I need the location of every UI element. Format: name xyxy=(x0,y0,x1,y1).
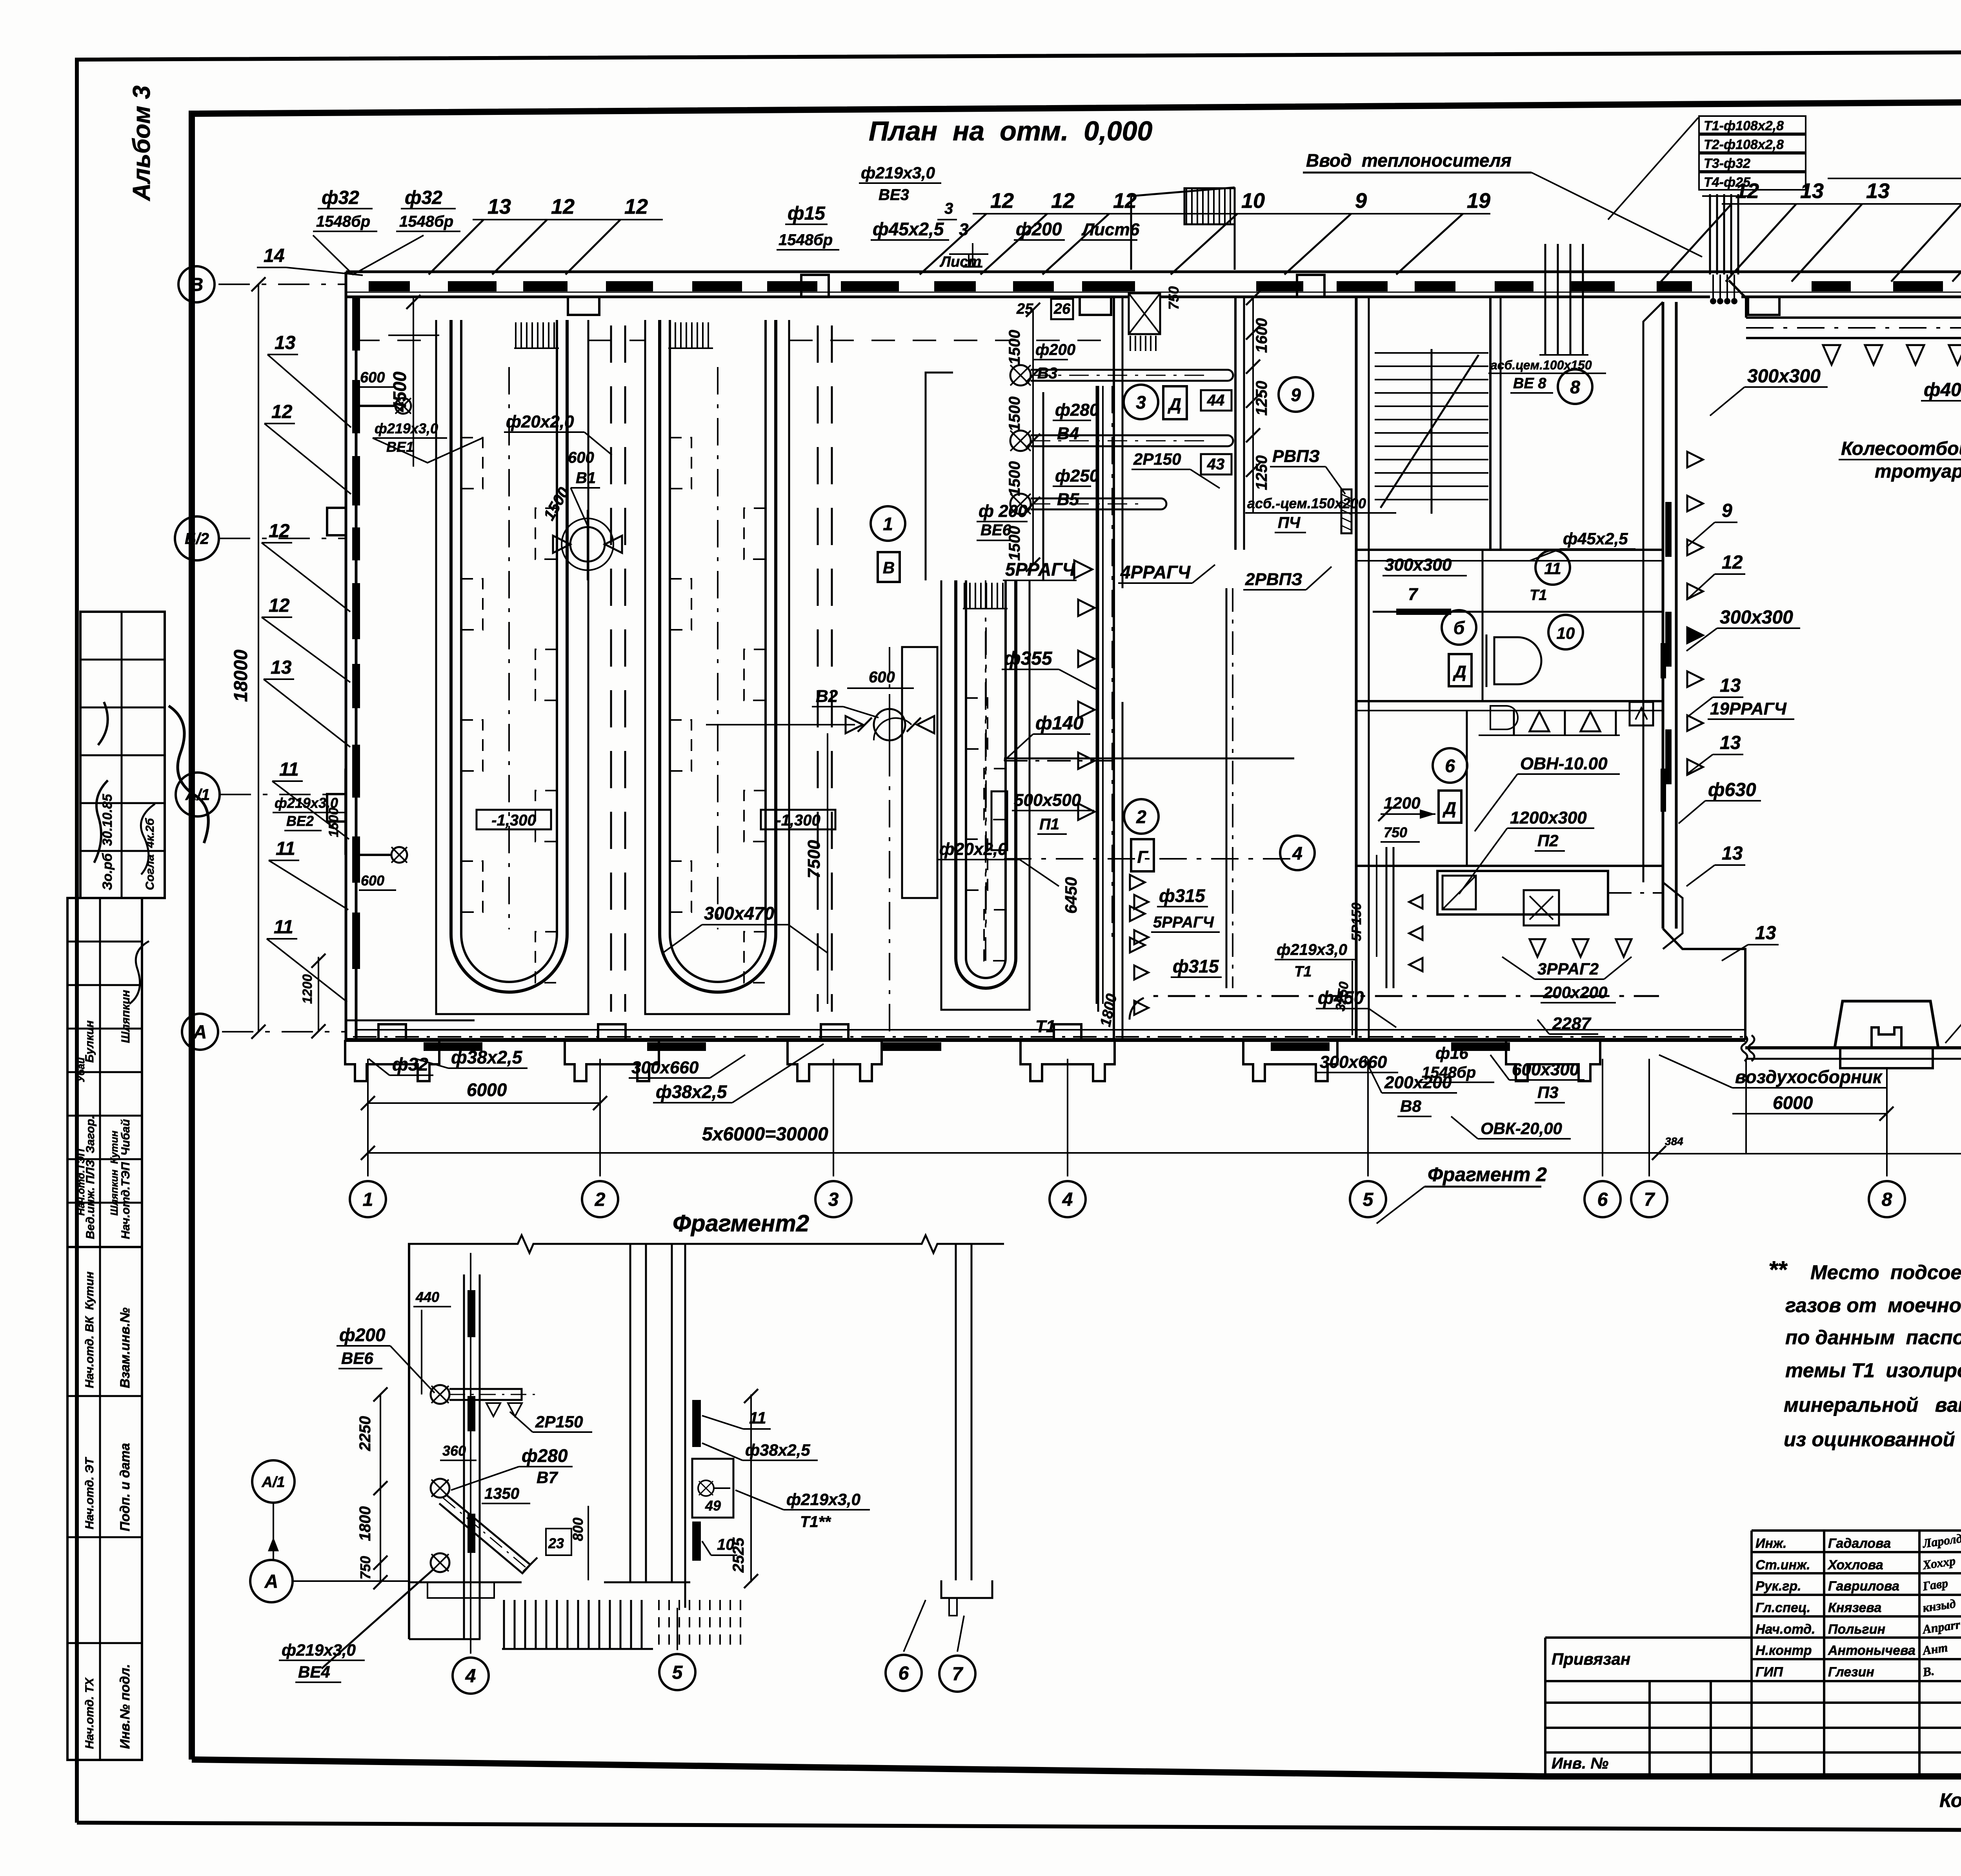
svg-text:ф140: ф140 xyxy=(1035,713,1084,734)
svg-text:Д: Д xyxy=(1442,799,1456,818)
svg-text:Ввод теплоносителя: Ввод теплоносителя xyxy=(1306,150,1512,171)
svg-text:5РРАГЧ: 5РРАГЧ xyxy=(1153,914,1214,931)
svg-text:В2: В2 xyxy=(816,687,838,706)
svg-text:6450: 6450 xyxy=(1062,877,1080,914)
T1 pipe room 11 xyxy=(1373,555,1663,615)
svg-text:В4: В4 xyxy=(1057,424,1079,443)
svg-text:Шляпкин Кутин: Шляпкин Кутин xyxy=(108,1131,120,1216)
triangle markers on wall 2840 xyxy=(1078,600,1145,953)
svg-text:10: 10 xyxy=(1241,189,1265,213)
svg-text:1500: 1500 xyxy=(1006,461,1023,496)
svg-text:440: 440 xyxy=(415,1289,439,1305)
svg-text:1200х300: 1200х300 xyxy=(1510,808,1587,827)
labels 200x200 V8 600x300 P3 OVK xyxy=(1365,1055,1584,1139)
left wall branch BE1 xyxy=(355,369,482,463)
svg-text:43: 43 xyxy=(1207,456,1225,473)
svg-text:ПЧ: ПЧ xyxy=(1278,514,1301,531)
svg-text:Г: Г xyxy=(1137,847,1148,867)
flags f32 1548br top left xyxy=(257,187,460,275)
svg-text:ВЕ3: ВЕ3 xyxy=(879,186,909,204)
svg-text:600: 600 xyxy=(568,449,594,466)
svg-text:600х300: 600х300 xyxy=(1512,1060,1579,1079)
svg-text:200х200: 200х200 xyxy=(1384,1073,1452,1092)
svg-text:асб.-цем.150х200: асб.-цем.150х200 xyxy=(1247,495,1366,511)
label f20x2.0 in hall xyxy=(504,412,1059,886)
fragment 2 axis bubbles 4 5 6 7 xyxy=(453,1253,975,1694)
svg-text:19: 19 xyxy=(1467,189,1490,213)
svg-text:360: 360 xyxy=(442,1443,466,1459)
wall x3150 rooms 3-9 xyxy=(1235,297,1244,550)
svg-text:2Р150: 2Р150 xyxy=(1133,450,1181,468)
svg-text:750: 750 xyxy=(1166,286,1182,310)
svg-text:12: 12 xyxy=(990,189,1014,213)
main title Plan at elev 0.000 xyxy=(869,116,1153,146)
svg-text:1800: 1800 xyxy=(357,1506,374,1541)
bottom dim line 5x6000=30000 xyxy=(361,1124,1666,1160)
right section slope triangles row xyxy=(1823,345,1961,365)
svg-text:Взам.инв.№: Взам.инв.№ xyxy=(118,1307,133,1388)
svg-text:13: 13 xyxy=(1866,179,1890,203)
svg-text:300х300: 300х300 xyxy=(1720,607,1793,628)
svg-text:2: 2 xyxy=(1136,807,1146,827)
svg-text:Согла 4к.2б: Согла 4к.2б xyxy=(144,818,156,890)
svg-text:Зо.рб 30.10.85: Зо.рб 30.10.85 xyxy=(100,794,115,890)
svg-text:2РВПЗ: 2РВПЗ xyxy=(1245,570,1302,589)
svg-text:ф40: ф40 xyxy=(1924,380,1961,400)
svg-text:Н.контр: Н.контр xyxy=(1755,1643,1812,1658)
svg-text:ф38х2,5: ф38х2,5 xyxy=(656,1082,728,1102)
svg-text:ВЕ6: ВЕ6 xyxy=(980,522,1011,539)
svg-text:Убай: Убай xyxy=(75,1057,87,1082)
corridor walls below stair xyxy=(1356,550,1663,867)
title block signature table xyxy=(1752,1531,1961,1776)
fragment 2 floor and trench xyxy=(409,1582,740,1649)
svg-text:Место подсоединения технолог: Место подсоединения технологического выб… xyxy=(1810,1261,1961,1283)
bottom wall footings xyxy=(345,1024,1600,1081)
svg-text:ф200: ф200 xyxy=(1016,219,1062,239)
hall platform edge dashed line xyxy=(356,340,1113,341)
svg-text:Д: Д xyxy=(1452,662,1466,682)
svg-text:ф219х3,0: ф219х3,0 xyxy=(282,1641,356,1659)
label OVN-10.00 xyxy=(1475,754,1620,831)
svg-text:ф219х3,0: ф219х3,0 xyxy=(786,1490,860,1509)
svg-text:1548бр: 1548бр xyxy=(779,231,833,249)
fragment 2 wall and columns xyxy=(409,1244,971,1639)
svg-text:Глезин: Глезин xyxy=(1828,1665,1874,1680)
svg-text:6000: 6000 xyxy=(1773,1093,1813,1113)
svg-text:ф250: ф250 xyxy=(1055,466,1099,485)
hall labels 5RRAGCh 4RRAGCh xyxy=(977,502,1332,590)
top band callout numbers left group xyxy=(429,195,663,274)
svg-text:Нач.отд. ВК Кутин: Нач.отд. ВК Кутин xyxy=(83,1272,96,1388)
svg-text:ф16: ф16 xyxy=(1435,1044,1469,1062)
svg-text:Нач.отд. ЭТ: Нач.отд. ЭТ xyxy=(83,1457,96,1529)
lane 3 roadway dashed centreline xyxy=(818,325,832,1012)
svg-text:7: 7 xyxy=(1408,585,1419,604)
label 1200 bottom left corner xyxy=(300,954,326,1038)
svg-text:В7: В7 xyxy=(537,1468,558,1487)
title block left extension privyazan xyxy=(1545,1638,1752,1776)
svg-text:**: ** xyxy=(1768,1256,1788,1283)
fragment 2 pipe BE4 xyxy=(279,1553,449,1682)
right section top sidewalk tract xyxy=(1729,280,1961,338)
svg-text:1: 1 xyxy=(363,1189,373,1210)
svg-text:2: 2 xyxy=(595,1189,606,1210)
heat inlet pipe risers xyxy=(1702,194,1749,304)
svg-text:13: 13 xyxy=(1800,179,1824,203)
label 300x300 pair and 19RRAGCh right side xyxy=(1679,366,1828,961)
svg-text:ф200: ф200 xyxy=(1035,341,1075,358)
svg-text:Б/2: Б/2 xyxy=(185,530,209,547)
svg-text:5РРАГЧ: 5РРАГЧ xyxy=(1005,559,1076,580)
left margin signature table upper xyxy=(80,612,208,898)
svg-text:-1,300: -1,300 xyxy=(776,812,820,829)
svg-text:7: 7 xyxy=(952,1664,964,1685)
svg-text:ф630: ф630 xyxy=(1708,780,1756,800)
drain funnel B2 xyxy=(706,669,934,1004)
svg-text:ф32: ф32 xyxy=(405,187,442,208)
svg-text:11: 11 xyxy=(1544,559,1561,578)
svg-text:ОВК-20,00: ОВК-20,00 xyxy=(1481,1119,1562,1138)
svg-text:ф20х2,0: ф20х2,0 xyxy=(506,412,574,431)
svg-text:1200: 1200 xyxy=(300,974,315,1004)
svg-text:Нач.отд.ТЭП: Нач.отд.ТЭП xyxy=(75,1149,87,1216)
riser pipes room 6 xyxy=(1349,847,1423,988)
bottom wall left part xyxy=(346,1020,1745,1040)
bottom dim line 36000 xyxy=(1659,1128,1961,1167)
svg-text:Т2-ф108х2,8: Т2-ф108х2,8 xyxy=(1704,137,1784,152)
svg-text:ОВН-10.00: ОВН-10.00 xyxy=(1520,754,1608,773)
left margin signature table middle xyxy=(67,898,149,1247)
axis A bubble left xyxy=(182,1014,345,1050)
svg-text:13: 13 xyxy=(1720,675,1741,696)
svg-text:б: б xyxy=(1453,618,1465,638)
notes asterisk paragraph xyxy=(1768,1256,1961,1451)
svg-text:Альбом 3: Альбом 3 xyxy=(128,85,155,202)
svg-text:воздухосборник: воздухосборник xyxy=(1735,1067,1883,1087)
svg-text:1548бр: 1548бр xyxy=(399,213,453,230)
svg-text:12: 12 xyxy=(269,521,290,542)
svg-text:2Р150: 2Р150 xyxy=(535,1412,583,1431)
svg-text:6: 6 xyxy=(899,1663,909,1684)
fragment 2 grid 7 column footing xyxy=(941,1580,992,1616)
fragment 2 pipe B7 diagonal xyxy=(431,1445,588,1580)
svg-text:800: 800 xyxy=(570,1518,586,1541)
toilet partitions xyxy=(1483,627,1666,812)
svg-text:ф280: ф280 xyxy=(522,1445,568,1466)
wheel stop blocks xyxy=(1835,1001,1961,1068)
svg-text:Привязан: Привязан xyxy=(1552,1650,1630,1668)
top band callout numbers center group xyxy=(920,189,1490,274)
svg-text:500х500: 500х500 xyxy=(1014,791,1081,810)
svg-text:В: В xyxy=(883,558,895,577)
svg-text:ф219х3,0: ф219х3,0 xyxy=(375,420,438,436)
fragment 2 pipe BE6 xyxy=(337,1325,592,1460)
entrance pit with cross xyxy=(1016,293,1160,351)
svg-text:4РРАГЧ: 4РРАГЧ xyxy=(1120,562,1191,582)
entrance porch top centre xyxy=(1131,187,1235,270)
album label xyxy=(128,85,155,202)
svg-text:13: 13 xyxy=(1722,843,1743,864)
svg-text:6: 6 xyxy=(1597,1189,1608,1210)
svg-text:13: 13 xyxy=(275,333,296,353)
svg-text:44: 44 xyxy=(1207,392,1225,409)
floor slope dim 4500 xyxy=(388,295,439,467)
svg-text:4: 4 xyxy=(1062,1189,1073,1210)
roadway axis dashed line lane 1-2 xyxy=(611,325,625,1012)
room 4 ducts xyxy=(1130,588,1659,1027)
svg-text:12: 12 xyxy=(1113,189,1137,213)
flags f15 f45 f200 list labels xyxy=(777,164,1182,310)
svg-text:Князева: Князева xyxy=(1828,1600,1881,1615)
svg-text:Шляпкин: Шляпкин xyxy=(119,990,132,1043)
svg-text:темы Т1 изолировать плитами: темы Т1 изолировать плитами теплоизоляци… xyxy=(1785,1359,1961,1382)
elbow duct bottom center xyxy=(1524,890,1559,925)
top wall heat pipe dark dashes xyxy=(369,281,1961,291)
vent shaft asb-cem room 9 xyxy=(1245,447,1396,533)
toilet fixtures room 10 xyxy=(1479,634,1653,735)
svg-text:Лист: Лист xyxy=(939,254,981,270)
svg-text:12: 12 xyxy=(1722,552,1743,573)
svg-text:3: 3 xyxy=(828,1189,839,1210)
svg-text:ф45х2,5: ф45х2,5 xyxy=(873,219,944,239)
svg-text:11: 11 xyxy=(276,838,295,859)
fragment 2 heading xyxy=(673,1210,809,1236)
right section stall marker triangles xyxy=(1687,452,1703,775)
svg-text:Гл.спец.: Гл.спец. xyxy=(1755,1600,1810,1615)
dim 6450 1800 washbay xyxy=(1062,877,1120,1028)
svg-text:600: 600 xyxy=(361,873,384,889)
kolesootboy trotuar label lower xyxy=(1945,936,1961,1102)
dim 1200 750 room6 xyxy=(1378,794,1435,842)
svg-text:3РРАГ2: 3РРАГ2 xyxy=(1537,960,1599,978)
svg-text:8: 8 xyxy=(1570,377,1580,397)
top wall of building xyxy=(346,272,1961,315)
svg-text:9: 9 xyxy=(1291,385,1301,405)
svg-text:300х660: 300х660 xyxy=(1320,1053,1387,1072)
vertical dim 18000 xyxy=(231,277,266,1039)
svg-text:4: 4 xyxy=(1292,843,1302,863)
copied by label xyxy=(1939,1789,1961,1811)
vozduhosbornik label xyxy=(1659,1035,1894,1153)
heating pipe T1 along bottom wall xyxy=(353,1017,1745,1051)
svg-text:Нач.отд. ТХ: Нач.отд. ТХ xyxy=(83,1677,96,1749)
svg-text:13: 13 xyxy=(488,195,511,218)
svg-text:ф15: ф15 xyxy=(788,203,826,224)
svg-text:12: 12 xyxy=(1051,189,1075,213)
svg-text:5: 5 xyxy=(1363,1189,1374,1210)
svg-text:2287: 2287 xyxy=(1552,1014,1592,1033)
axis leader kinks 6 7 xyxy=(1603,1098,1628,1176)
svg-text:5Р150: 5Р150 xyxy=(1349,903,1364,941)
top band callout numbers right group xyxy=(1661,179,1961,282)
inspection pit 1 xyxy=(436,320,588,1014)
svg-text:из оцинкованной стали с г: из оцинкованной стали с газоплотными сое… xyxy=(1784,1428,1961,1451)
svg-text:750: 750 xyxy=(1384,824,1407,840)
fragment 2 grid circles A1 A xyxy=(250,1460,408,1602)
svg-text:6000: 6000 xyxy=(467,1080,507,1100)
svg-text:300х300: 300х300 xyxy=(1384,555,1452,574)
staircase treads xyxy=(1375,349,1488,514)
svg-text:Нач.отд.: Нач.отд. xyxy=(1755,1622,1815,1637)
right section left wall xyxy=(1643,302,1745,1040)
svg-text:Инж.: Инж. xyxy=(1755,1536,1786,1551)
svg-text:Гадалова: Гадалова xyxy=(1828,1536,1891,1551)
axis bubbles bottom 1-10 xyxy=(350,1059,1961,1217)
svg-text:В.: В. xyxy=(1921,1663,1935,1679)
svg-text:Хохлова: Хохлова xyxy=(1827,1558,1883,1572)
svg-text:Колесоотбойный: Колесоотбойный xyxy=(1841,438,1961,459)
svg-text:7500: 7500 xyxy=(804,840,824,878)
stair block walls xyxy=(1356,297,1663,561)
labels 3RRAG2 200x200 bottom center xyxy=(1502,939,1632,1003)
svg-text:5х6000=30000: 5х6000=30000 xyxy=(702,1124,828,1145)
fragment 2 leader label on plan xyxy=(1377,1163,1547,1223)
svg-text:1548бр: 1548бр xyxy=(316,213,370,230)
svg-text:Т3-ф32: Т3-ф32 xyxy=(1704,156,1750,171)
svg-text:В1: В1 xyxy=(576,469,596,487)
svg-text:ф38х2,5: ф38х2,5 xyxy=(745,1441,810,1459)
svg-text:Антонычева: Антонычева xyxy=(1828,1643,1916,1658)
svg-text:ф280: ф280 xyxy=(1055,400,1099,420)
left wall duct dark dashes xyxy=(352,298,360,969)
svg-text:Нач.отд.ТЭП Чибай: Нач.отд.ТЭП Чибай xyxy=(119,1119,132,1239)
svg-text:750: 750 xyxy=(357,1556,373,1580)
svg-text:РВПЗ: РВПЗ xyxy=(1272,447,1320,466)
svg-text:12: 12 xyxy=(551,195,575,218)
svg-text:Польгин: Польгин xyxy=(1828,1622,1885,1637)
svg-text:200х200: 200х200 xyxy=(1543,983,1608,1002)
svg-text:В: В xyxy=(190,274,204,295)
svg-text:А/1: А/1 xyxy=(185,786,210,803)
svg-text:11: 11 xyxy=(274,917,293,938)
svg-text:В5: В5 xyxy=(1057,490,1079,509)
svg-text:384: 384 xyxy=(1665,1135,1683,1147)
label 300x470 in hall xyxy=(663,903,828,953)
drain funnel B1 xyxy=(540,449,622,580)
svg-text:Рук.гр.: Рук.гр. xyxy=(1755,1579,1801,1594)
fragment 2 top break line xyxy=(408,1235,1004,1253)
svg-text:газов от моечной машины при: газов от моечной машины при привязке отк… xyxy=(1785,1294,1961,1316)
svg-text:П1: П1 xyxy=(1039,816,1059,833)
svg-text:Т1: Т1 xyxy=(1035,1017,1055,1036)
labels -1.300 floor elevation xyxy=(477,810,835,829)
right section front curb xyxy=(1745,1048,1961,1059)
svg-text:А: А xyxy=(264,1571,278,1592)
wall x3458 stair left xyxy=(1356,297,1369,1040)
svg-text:6: 6 xyxy=(1445,756,1455,776)
labels f355 f140 500x500 xyxy=(991,648,1294,850)
svg-text:1500: 1500 xyxy=(1006,330,1023,365)
bottom dim line 6000 xyxy=(361,1080,607,1110)
vertical duct f355 line xyxy=(1097,386,1103,1004)
svg-text:13: 13 xyxy=(1755,923,1776,943)
axis B bubble left xyxy=(178,266,345,302)
washroom piping cluster xyxy=(1010,365,1233,514)
svg-text:А/1: А/1 xyxy=(261,1474,285,1491)
svg-text:Инв. №: Инв. № xyxy=(1552,1755,1608,1772)
duct dash-dot line room4 right xyxy=(1004,858,1294,860)
svg-text:Подп. и дата: Подп. и дата xyxy=(118,1443,133,1531)
room bubbles center xyxy=(1124,369,1592,871)
svg-text:12: 12 xyxy=(269,595,290,616)
left wall branch BE2 xyxy=(273,769,407,890)
label f32 f38 bottom left xyxy=(369,1044,1494,1103)
svg-text:ГИП: ГИП xyxy=(1755,1665,1783,1680)
fragment 2 column dark segments xyxy=(409,1290,480,1639)
BE8 risers above stair xyxy=(1488,244,1606,393)
svg-text:1350: 1350 xyxy=(484,1485,519,1502)
svg-text:ф38х2,5: ф38х2,5 xyxy=(451,1047,523,1067)
svg-text:Т1: Т1 xyxy=(1294,963,1312,980)
T1-T4 pipe spec boxes xyxy=(1608,116,1806,220)
svg-text:Фрагмент 2: Фрагмент 2 xyxy=(1428,1163,1547,1185)
svg-text:Д: Д xyxy=(1167,395,1181,414)
svg-text:3: 3 xyxy=(944,200,953,217)
svg-text:ф355: ф355 xyxy=(1004,648,1053,669)
svg-text:ВЕ2: ВЕ2 xyxy=(286,813,314,829)
svg-text:3: 3 xyxy=(959,220,968,239)
svg-text:1: 1 xyxy=(883,514,893,534)
svg-text:19РРАГЧ: 19РРАГЧ xyxy=(1710,699,1787,718)
svg-text:Т1**: Т1** xyxy=(800,1513,831,1531)
svg-text:ф45х2,5: ф45х2,5 xyxy=(1563,529,1628,548)
svg-text:ВЕ4: ВЕ4 xyxy=(298,1663,330,1681)
svg-text:13: 13 xyxy=(1720,733,1741,753)
room 1 bubble xyxy=(871,506,905,582)
svg-text:ф315: ф315 xyxy=(1159,885,1206,906)
svg-text:13: 13 xyxy=(271,657,292,678)
left outside callouts 13 12 11 xyxy=(262,333,351,1002)
inspection pit 2 xyxy=(645,320,789,1014)
svg-text:Фрагмент2: Фрагмент2 xyxy=(673,1210,809,1236)
svg-text:12: 12 xyxy=(1735,179,1759,203)
axis B2 bubble left xyxy=(175,516,345,560)
svg-text:ф315: ф315 xyxy=(1173,956,1219,976)
svg-text:-1,300: -1,300 xyxy=(491,812,536,829)
svg-text:1250: 1250 xyxy=(1253,381,1270,416)
svg-text:Инв.№ подл.: Инв.№ подл. xyxy=(118,1664,133,1749)
left wall of building xyxy=(327,272,356,1040)
wall between hall and rooms x2840 xyxy=(1114,297,1122,1040)
svg-text:Копировал Ивскова: Копировал Ивскова xyxy=(1939,1789,1961,1811)
fragment 1 label xyxy=(1828,133,1961,188)
svg-text:2525: 2525 xyxy=(730,1537,747,1573)
drain channel dash-dot through B2 xyxy=(890,386,1112,1035)
kolesootboy trotuar label upper xyxy=(1839,424,1961,482)
svg-text:1500: 1500 xyxy=(326,807,341,837)
vvod teplonositelya label xyxy=(1303,150,1702,257)
svg-text:25: 25 xyxy=(1016,301,1033,317)
svg-text:5: 5 xyxy=(672,1662,683,1683)
svg-text:300х300: 300х300 xyxy=(1747,366,1821,387)
svg-text:4: 4 xyxy=(465,1666,476,1687)
svg-text:14: 14 xyxy=(264,245,284,266)
svg-text:2250: 2250 xyxy=(357,1416,374,1451)
labels f40 f630 f600 right tract xyxy=(1921,329,1961,401)
svg-text:Ст.инж.: Ст.инж. xyxy=(1755,1558,1810,1572)
svg-text:49: 49 xyxy=(705,1498,721,1514)
svg-text:1500: 1500 xyxy=(1006,396,1023,431)
svg-text:7: 7 xyxy=(1644,1189,1655,1210)
svg-text:ф32: ф32 xyxy=(392,1054,428,1074)
axis A1 bubble left xyxy=(176,773,345,816)
dimension chain 1600 1250 1250 xyxy=(1246,291,1270,514)
heating unit box room 6 xyxy=(1216,871,1683,949)
svg-text:300х660: 300х660 xyxy=(631,1058,699,1077)
svg-text:Булкин: Булкин xyxy=(83,1020,96,1063)
svg-text:ф 200: ф 200 xyxy=(979,502,1028,521)
